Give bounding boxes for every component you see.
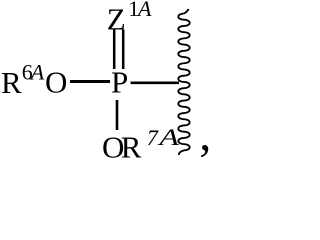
svg-text:A: A <box>157 125 180 151</box>
svg-text:R: R <box>121 130 142 162</box>
svg-text:A: A <box>29 60 45 85</box>
bond O-P <box>70 80 110 83</box>
bond P-O (down) <box>116 100 119 130</box>
svg-text:A: A <box>136 0 152 21</box>
svg-text:R: R <box>1 65 22 100</box>
atom label R6A (R with superscript 6A) <box>1 60 45 101</box>
svg-text:,: , <box>199 108 211 161</box>
svg-text:P: P <box>111 65 128 100</box>
atom label Z1A (Z with superscript 1A) <box>107 0 152 36</box>
double bond P=Z <box>114 30 123 70</box>
wavy bond (attachment squiggle) <box>178 9 189 155</box>
svg-text:O: O <box>45 65 67 100</box>
svg-text:7: 7 <box>147 125 159 150</box>
bond P-squiggle <box>131 81 180 84</box>
atom label OR7A (O, R with superscript 7A) <box>102 125 180 165</box>
svg-text:Z: Z <box>107 1 126 36</box>
